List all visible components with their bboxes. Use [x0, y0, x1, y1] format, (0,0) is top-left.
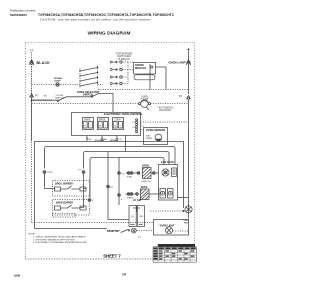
svg-text:GAS VALVE: GAS VALVE — [161, 161, 174, 164]
svg-text:1. CHECK GROUNDING OF ALL INDI: 1. CHECK GROUNDING OF ALL INDICATED PART… — [33, 235, 86, 238]
connector P left burner — [43, 171, 53, 175]
wire band A — [35, 142, 184, 229]
wire — [66, 96, 92, 98]
svg-text:SHEET 7: SHEET 7 — [103, 253, 121, 258]
svg-text:NOTE:: NOTE: — [29, 234, 36, 236]
svg-text:OVEN SENSOR: OVEN SENSOR — [146, 128, 165, 132]
wire valve to L2 — [178, 197, 189, 199]
connector P1 on L1 — [30, 60, 34, 65]
junction node — [31, 99, 33, 101]
wiring code table — [153, 244, 197, 262]
svg-text:LK 14B: LK 14B — [133, 199, 142, 202]
valve solenoid bake 1 — [160, 189, 166, 199]
oven fan motor M1 — [183, 206, 192, 225]
wire main dashed row to thermostat — [32, 103, 189, 105]
wire neutral bottom dashed — [32, 94, 153, 223]
burner switch row 3 — [110, 62, 128, 78]
wire burner bus — [149, 64, 151, 90]
wire band D — [90, 158, 164, 199]
svg-text:OHMS: OHMS — [146, 138, 153, 140]
burner switch row 2 — [110, 68, 133, 70]
broil burner box (dashed) — [53, 181, 90, 197]
wire to EOC — [100, 94, 114, 113]
door lock box — [121, 199, 145, 227]
svg-text:FAN: FAN — [184, 221, 189, 224]
oven lamp DS1 — [131, 228, 136, 233]
connector burner lower — [88, 199, 94, 203]
connector on x119 lower — [118, 194, 121, 197]
svg-text:WIRING DIAGRAM: WIRING DIAGRAM — [88, 31, 131, 37]
publication header text — [10, 9, 175, 22]
wire row2 into valve — [149, 193, 161, 195]
wire L1 lower dashed — [31, 66, 33, 94]
node L2 label — [188, 49, 190, 51]
wire into broil burner — [45, 173, 55, 188]
switch S2 — [92, 93, 100, 97]
oven selector switch bank — [79, 66, 98, 88]
svg-text:SIGNAL: SIGNAL — [54, 77, 63, 80]
svg-text:(4 REQ D): (4 REQ D) — [118, 57, 130, 61]
note text block — [29, 234, 88, 245]
svg-text:L1: L1 — [30, 48, 34, 52]
svg-text:P7: P7 — [35, 94, 39, 98]
switch S3 — [121, 229, 129, 232]
svg-text:OVEN LAMP: OVEN LAMP — [168, 61, 185, 65]
EOC pin wires dashed — [141, 121, 189, 123]
wire light row — [35, 228, 108, 230]
svg-text:BROIL BURNER: BROIL BURNER — [55, 184, 73, 186]
connector pair row2 left — [126, 193, 135, 200]
thermostat TH1 — [138, 100, 150, 108]
wire dashed to fan — [151, 210, 185, 212]
svg-text:SW: SW — [139, 216, 142, 218]
drop wire x119 — [118, 157, 120, 205]
wire right into broil burner — [84, 173, 87, 188]
valve coil broil — [162, 169, 169, 176]
switch S1 — [58, 97, 66, 101]
connector row2 — [135, 193, 138, 196]
svg-text:BAKE: BAKE — [84, 119, 91, 122]
svg-text:* OVEN LIGHT: * OVEN LIGHT — [158, 224, 175, 227]
frame bottom redraw — [26, 258, 154, 260]
signal light DS2 — [54, 77, 63, 86]
burner switch row 4 — [110, 77, 128, 85]
connector on x108 — [107, 185, 114, 189]
oven sensor box — [144, 128, 168, 145]
bake burner box (dashed) — [53, 200, 90, 216]
valve solenoid bake 2 — [168, 189, 174, 199]
svg-text:12/98: 12/98 — [14, 274, 21, 278]
svg-text:P2: P2 — [179, 94, 183, 98]
svg-text:Publication number: Publication number — [10, 9, 36, 13]
oven light box — [154, 220, 189, 236]
relay K3 — [113, 118, 124, 130]
wire L1 solid down — [31, 98, 33, 142]
wire L2 down — [188, 100, 190, 208]
EOC output stubs — [86, 136, 122, 142]
relay K2 broil — [98, 118, 109, 130]
relay K1 bake — [83, 118, 94, 130]
EOC box — [72, 113, 141, 136]
wire spark to ignitor — [156, 67, 167, 90]
broil ignitor (hatched) — [141, 168, 151, 183]
connector row1 — [136, 172, 140, 175]
bake burner tail box — [53, 214, 76, 218]
wire L1 vertical dashed — [31, 52, 33, 95]
svg-text:P BK: P BK — [127, 177, 132, 179]
svg-text:TGF366CHSA,TGF366CHSB,TGF366CH: TGF366CHSA,TGF366CHSB,TGF366CHSC,TGF366C… — [38, 13, 175, 17]
svg-text:CAUTION: Use the part number o: CAUTION: Use the part number on all orde… — [40, 18, 151, 22]
svg-text:3. DISCONNECT POWER BEFORE SER: 3. DISCONNECT POWER BEFORE SERVICING UNI… — [33, 242, 87, 244]
svg-text:P8 RED: P8 RED — [110, 140, 118, 142]
connector P right burner top — [78, 170, 85, 174]
svg-text:SWITCH: SWITCH — [83, 92, 93, 96]
connector on L2 — [186, 60, 190, 65]
wire band B — [45, 147, 176, 169]
wire dashed neutral return — [98, 89, 189, 91]
bake ignitor (hatched) — [140, 189, 149, 200]
connector strip J1 — [133, 119, 138, 133]
svg-text:1080: 1080 — [146, 136, 152, 138]
svg-text:*: * — [121, 199, 122, 202]
outer dashed frame — [26, 43, 195, 260]
svg-text:2. SWITCHES SHOWN IN OFF POSIT: 2. SWITCHES SHOWN IN OFF POSITION. — [33, 239, 76, 241]
wire L2 vertical — [188, 51, 190, 94]
svg-text:BAKE BURNER: BAKE BURNER — [56, 202, 73, 205]
connector P2 — [179, 94, 191, 99]
gas valve box — [159, 165, 178, 201]
sensor drop wire — [125, 136, 127, 152]
wire to light box — [136, 230, 153, 232]
connector P7 — [30, 94, 39, 98]
drop wire x108 — [108, 152, 129, 220]
svg-text:P9 GRAY: P9 GRAY — [95, 139, 105, 142]
connector pair row1 right — [151, 172, 159, 175]
svg-text:14: 14 — [122, 273, 126, 277]
wire dashed selector feed — [32, 84, 80, 86]
svg-text:IGNITOR: IGNITOR — [141, 181, 150, 183]
wire L2 bottom — [188, 213, 190, 219]
burner switch row 1 — [110, 61, 133, 63]
valve aux box — [172, 168, 177, 177]
svg-text:ELECTRONIC OVEN CONTROL: ELECTRONIC OVEN CONTROL — [104, 112, 143, 116]
spark module U1 — [134, 63, 156, 80]
svg-text:BLACK: BLACK — [37, 61, 51, 65]
wire band C — [84, 152, 170, 169]
svg-text:P BK: P BK — [48, 172, 53, 174]
wire oven light branch — [32, 99, 52, 101]
svg-text:P V: P V — [78, 170, 82, 172]
connector on x119 upper — [118, 172, 125, 176]
wire into bake burner — [80, 189, 84, 208]
svg-text:LIGHT: LIGHT — [54, 81, 61, 83]
svg-text:MODULE: MODULE — [135, 66, 147, 70]
svg-text:5995338684: 5995338684 — [10, 13, 27, 17]
connector pair row1 left — [126, 172, 137, 179]
junction — [183, 210, 185, 212]
svg-text:SHUTOFF: SHUTOFF — [159, 108, 172, 112]
